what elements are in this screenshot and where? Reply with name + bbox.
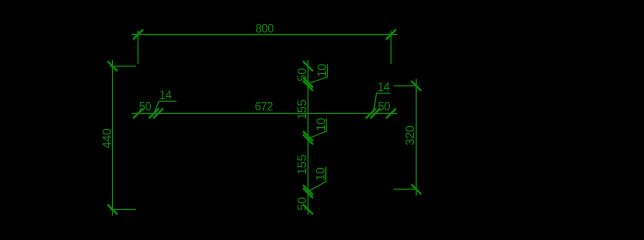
text 10 middle (rotated) <box>314 118 328 132</box>
middle tick b0 <box>303 61 313 71</box>
svg-text:10: 10 <box>314 167 328 181</box>
text 10 top (rotated) <box>315 64 329 78</box>
svg-text:155: 155 <box>295 154 309 174</box>
svg-text:800: 800 <box>256 24 274 36</box>
text 14 right <box>378 82 391 94</box>
svg-text:10: 10 <box>314 118 328 132</box>
svg-text:440: 440 <box>100 128 114 148</box>
leader 10 bottom <box>309 167 326 191</box>
svg-text:50: 50 <box>295 68 309 82</box>
middle chain 50/10/155/10/155/10/50: dim line <box>307 60 309 215</box>
dimension 440: bottom tick <box>108 204 118 214</box>
text 320 (rotated) <box>403 125 417 145</box>
dimension 320: top tick <box>411 81 421 91</box>
text 50 middle-top (rotated) <box>295 68 309 82</box>
dimension 320: bottom tick <box>411 184 421 194</box>
chain tick c0 <box>133 108 143 118</box>
chain tick c2 <box>153 108 163 118</box>
chain tick c1 <box>149 108 159 118</box>
leader 10 top <box>309 64 328 83</box>
middle tick b3 <box>303 131 313 141</box>
dimension 800: right tick <box>386 30 396 40</box>
dimension 800: left extension line <box>137 31 139 65</box>
svg-text:50: 50 <box>139 102 151 114</box>
chain tick c3 <box>366 108 376 118</box>
dimension 320: dim line <box>415 79 417 196</box>
chain dimension 50/14/672/14/50: dim line <box>132 112 398 114</box>
svg-text:320: 320 <box>403 125 417 145</box>
middle tick b6 <box>303 188 313 198</box>
dimension 800: left tick <box>133 30 143 40</box>
dimension 800: right extension line <box>390 31 392 65</box>
text 800 <box>256 24 274 36</box>
middle tick b4 <box>303 134 313 144</box>
leader 14 left <box>154 101 177 113</box>
text 50 middle-bottom (rotated) <box>295 197 309 211</box>
middle tick b7 <box>303 204 313 214</box>
text 672 <box>255 101 273 113</box>
middle tick b2 <box>303 81 313 91</box>
dimension 440: bottom extension line <box>110 208 136 210</box>
text 50 right <box>378 101 390 113</box>
svg-text:155: 155 <box>295 99 309 119</box>
middle tick b5 <box>303 185 313 195</box>
dimension 320: bottom extension line <box>393 188 416 190</box>
svg-text:14: 14 <box>159 90 172 102</box>
text 50 left <box>139 102 151 114</box>
leader 14 right <box>374 93 391 111</box>
text 155 upper (rotated) <box>295 99 309 119</box>
dimension 800: dim line <box>132 34 398 36</box>
leader 10 middle <box>309 119 327 139</box>
text 155 lower (rotated) <box>295 154 309 174</box>
dimension 440: dim line <box>112 60 114 216</box>
svg-text:10: 10 <box>315 64 329 78</box>
text 14 left <box>159 90 172 102</box>
svg-text:14: 14 <box>378 82 391 94</box>
middle tick b1 <box>303 78 313 88</box>
dimension 320: top extension line <box>394 85 417 87</box>
dimension 440: top tick <box>108 61 118 71</box>
svg-text:50: 50 <box>295 197 309 211</box>
dimension 440: top extension line <box>110 65 136 67</box>
chain tick c5 <box>386 108 396 118</box>
text 10 bottom (rotated) <box>314 167 328 181</box>
chain tick c4 <box>370 108 380 118</box>
text 440 (rotated) <box>100 128 114 148</box>
svg-text:672: 672 <box>255 101 273 113</box>
svg-text:50: 50 <box>378 101 390 113</box>
